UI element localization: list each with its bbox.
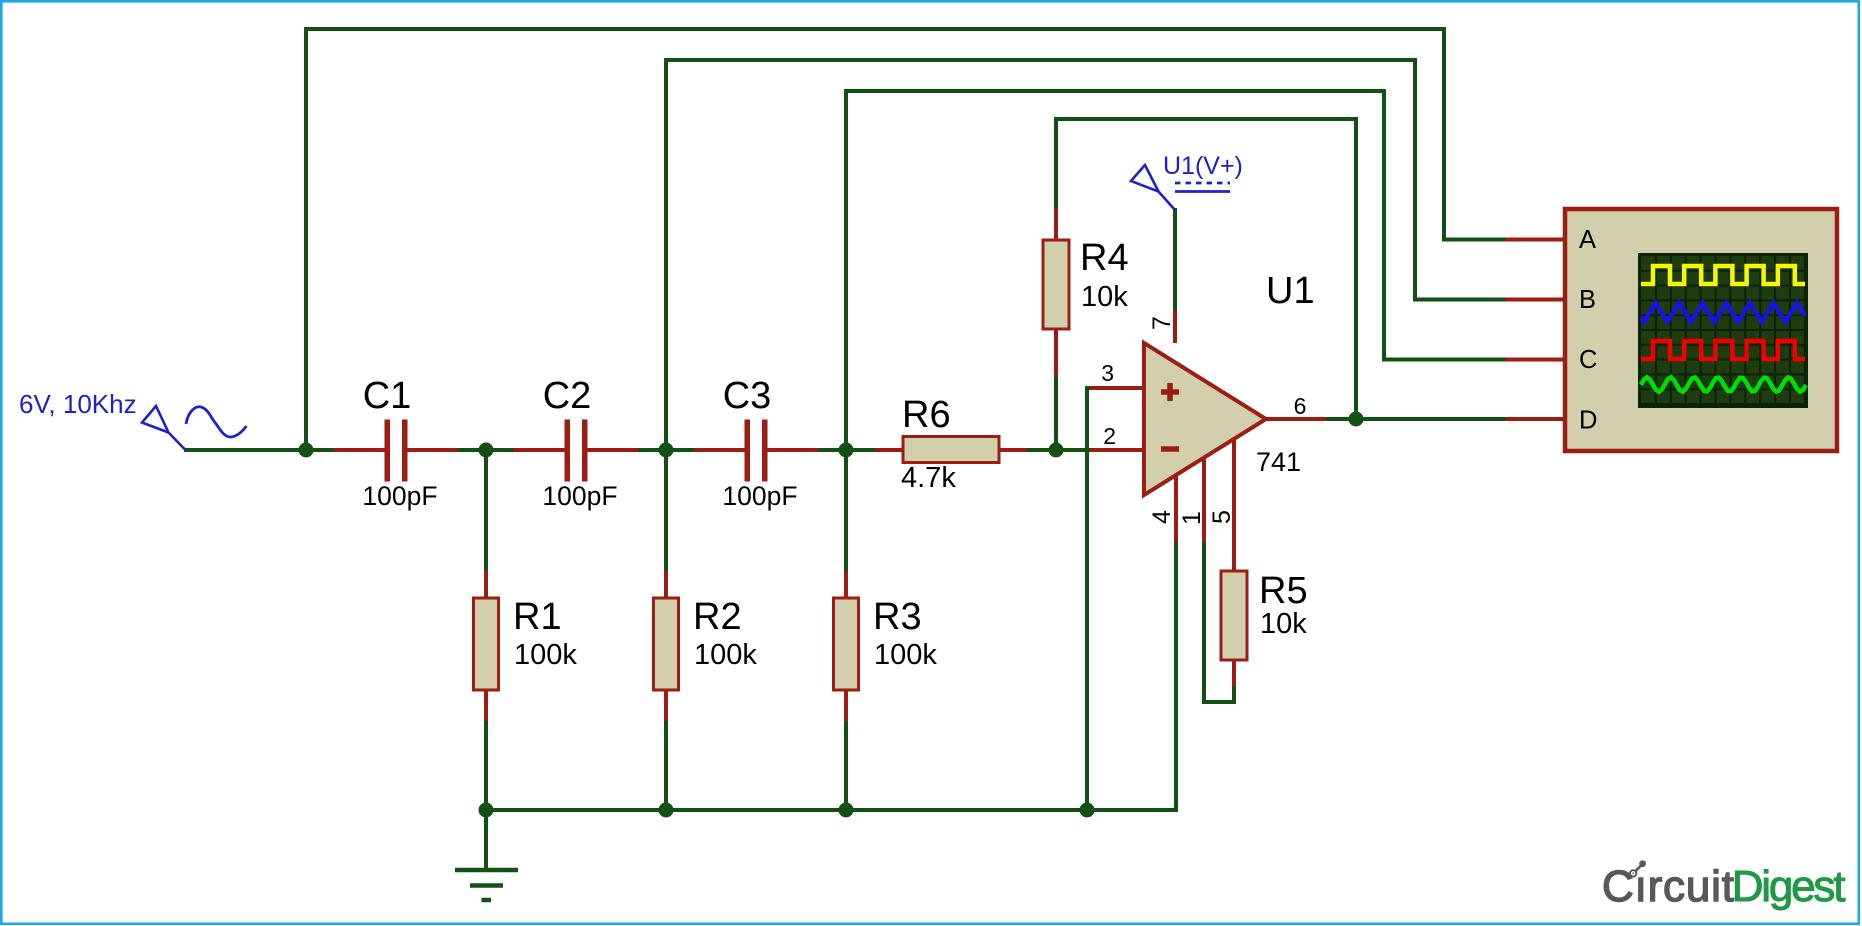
wire R1 bottom [484, 721, 488, 810]
wire net A (input node to scope A) [306, 29, 1506, 450]
svg-text:7: 7 [1148, 316, 1176, 330]
junction node ground R1 [479, 803, 494, 818]
wire output node to scope D [1326, 417, 1506, 421]
waveform channel B blue [1641, 303, 1805, 322]
op-amp U1 [1090, 270, 1326, 542]
waveform channel C red [1641, 341, 1805, 359]
wire pin6 green [1326, 417, 1506, 421]
resistor R6 [875, 394, 1027, 494]
wire net B (C2-C3 node to scope B) [666, 60, 1506, 450]
svg-text:C2: C2 [543, 375, 592, 417]
junction node ground R2 [659, 803, 674, 818]
capacitor C3 [694, 375, 818, 511]
svg-text:3: 3 [1101, 360, 1114, 386]
svg-text:4: 4 [1148, 510, 1176, 524]
capacitor C2 [514, 375, 638, 511]
wire R3 top [844, 450, 848, 571]
svg-text:R2: R2 [693, 596, 742, 638]
svg-text:100k: 100k [874, 639, 937, 671]
wire R2 bottom [664, 721, 668, 810]
svg-text:100k: 100k [514, 639, 577, 671]
resistor R5 [1221, 439, 1308, 686]
wire R5 bottom to pin1 [1204, 541, 1234, 702]
wire input segment [186, 448, 334, 452]
resistor R1 [474, 571, 578, 721]
svg-text:1: 1 [1178, 511, 1206, 525]
svg-text:C: C [1579, 346, 1597, 374]
wire pin3 to ground rail [1087, 388, 1090, 810]
svg-text:6V, 10Khz: 6V, 10Khz [19, 389, 137, 419]
wire R4 bottom to pin2 node [1054, 377, 1058, 450]
svg-text:2: 2 [1103, 423, 1116, 449]
oscilloscope [1506, 209, 1837, 451]
junction node C1-C2 [479, 443, 494, 458]
svg-text:100k: 100k [694, 639, 757, 671]
waveform channel A yellow [1641, 266, 1805, 284]
svg-text:5: 5 [1208, 510, 1236, 524]
power probe U1(V+) [1131, 152, 1243, 210]
ground [455, 870, 518, 900]
svg-text:R5: R5 [1259, 570, 1308, 612]
resistor R3 [834, 571, 938, 721]
wire net C (C3-R6 node to scope C) [846, 91, 1506, 450]
junction node C2-C3 [659, 443, 674, 458]
junction node input [299, 443, 314, 458]
svg-text:10k: 10k [1260, 608, 1307, 640]
wire feedback output to R4 top [1056, 119, 1356, 419]
svg-text:100pF: 100pF [542, 481, 617, 511]
wire green C2-C3 [638, 448, 694, 452]
svg-text:D: D [1579, 407, 1597, 435]
svg-text:C1: C1 [363, 375, 412, 417]
svg-text:741: 741 [1256, 447, 1301, 477]
capacitor C1 [334, 375, 458, 511]
svg-text:R4: R4 [1080, 237, 1129, 279]
svg-text:4.7k: 4.7k [901, 462, 956, 494]
waveform channel D green [1641, 377, 1806, 391]
resistor R4 [1043, 208, 1129, 377]
junction node ground R3 [839, 803, 854, 818]
input source probe 6V 10Khz [19, 389, 247, 451]
wire R2 top [664, 450, 668, 571]
svg-text:100pF: 100pF [722, 481, 797, 511]
svg-text:R1: R1 [513, 596, 562, 638]
svg-text:R6: R6 [902, 394, 951, 436]
wire R1 top [484, 450, 488, 571]
wire R3 bottom [844, 721, 848, 810]
wire pin7 up [1173, 210, 1177, 310]
svg-text:10k: 10k [1081, 281, 1128, 313]
junction node output [1349, 412, 1364, 427]
wire green R6 to pin2 node [1027, 448, 1090, 452]
svg-text:B: B [1579, 286, 1596, 314]
resistor R2 [654, 571, 758, 721]
svg-text:U1(V+): U1(V+) [1163, 152, 1243, 180]
wire ground rail [486, 542, 1176, 810]
svg-text:R3: R3 [873, 596, 922, 638]
svg-text:C3: C3 [723, 375, 772, 417]
junction node pin2 [1049, 443, 1064, 458]
wire green C3-R6 [818, 448, 875, 452]
wire green C1-C2 [458, 448, 514, 452]
svg-text:6: 6 [1294, 393, 1307, 419]
wire ground stem [484, 810, 488, 868]
junction node ground pin3 [1080, 803, 1095, 818]
svg-text:100pF: 100pF [362, 481, 437, 511]
CircuitDigest logo [1602, 860, 1845, 911]
junction node C3-R6 [839, 443, 854, 458]
svg-text:A: A [1579, 226, 1596, 254]
svg-text:U1: U1 [1266, 270, 1315, 312]
